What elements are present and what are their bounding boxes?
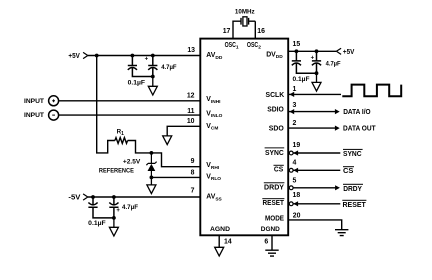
arrowhead to DATA I/O: [335, 109, 340, 114]
svg-text:REFERENCE: REFERENCE: [99, 167, 134, 174]
net label RESET (active low): [342, 200, 366, 209]
svg-text:0.1µF: 0.1µF: [88, 220, 106, 227]
zener diode D1 +2.5V reference: [146, 153, 156, 178]
capacitor C3 0.1uF (AVSS): [88, 197, 114, 218]
net label CS (active low): [343, 166, 354, 175]
wire pin10 VCM: [167, 126, 200, 136]
ground (AVDD decoupling): [148, 77, 157, 96]
svg-text:AGND: AGND: [210, 226, 230, 233]
svg-text:+5V: +5V: [68, 53, 80, 60]
svg-text:+2.5V: +2.5V: [123, 159, 141, 166]
junction on AVDD rail feeding R1: [95, 54, 99, 58]
capacitor C1 0.1uF (AVDD): [128, 56, 153, 77]
svg-text:DRDY: DRDY: [343, 186, 362, 193]
wire pin2 SDO: [288, 127, 335, 129]
svg-text:18: 18: [293, 192, 301, 199]
svg-text:4.7µF: 4.7µF: [122, 204, 138, 211]
supply +5V arrow (left): [83, 52, 88, 58]
svg-text:DGND: DGND: [261, 226, 280, 233]
input source INPUT+: [49, 96, 59, 106]
capacitor C4 4.7uF (AVSS): [109, 197, 118, 218]
pin label DRDY (active low): [264, 182, 285, 191]
crystal Y1 10MHz: [233, 17, 255, 39]
pin label CS (active low): [274, 165, 284, 174]
junction on AVSS rail at C4: [112, 195, 116, 199]
junction on DVDD rail at C6: [315, 49, 319, 53]
svg-text:RESET: RESET: [343, 202, 367, 209]
wire pin3 SDIO: [289, 111, 335, 113]
wire pin15 DVDD rail: [288, 50, 336, 52]
svg-text:4.7µF: 4.7µF: [161, 64, 177, 71]
supply -5V arrow: [83, 194, 88, 200]
svg-text:SDIO: SDIO: [267, 107, 284, 114]
svg-text:-5V: -5V: [68, 194, 80, 201]
bubble pin5 (active low): [289, 186, 293, 190]
junction on AVDD rail at C1: [131, 54, 135, 58]
wire pin1 SCLK: [289, 93, 341, 95]
svg-text:RESET: RESET: [263, 200, 285, 207]
svg-text:R1: R1: [117, 129, 125, 138]
svg-text:DATA OUT: DATA OUT: [343, 125, 376, 132]
wire pin8 VRLO: [151, 176, 200, 178]
clock waveform symbol: [342, 85, 401, 97]
earth ground (DGND): [265, 250, 278, 256]
svg-text:16: 16: [257, 28, 265, 35]
svg-text:6: 6: [264, 239, 268, 246]
svg-text:DRDY: DRDY: [264, 184, 284, 191]
svg-text:19: 19: [293, 142, 301, 149]
svg-text:7: 7: [191, 188, 195, 195]
junction on DVDD rail at C5: [295, 49, 299, 53]
capacitor C2 4.7uF (AVDD): [148, 56, 157, 77]
junction on AVSS rail at C3: [91, 195, 95, 199]
svg-text:2: 2: [293, 120, 297, 127]
resistor R1: [115, 138, 128, 144]
svg-text:5: 5: [293, 178, 297, 185]
arrowhead into pin1: [289, 92, 294, 97]
svg-text:10: 10: [187, 118, 195, 125]
svg-text:3: 3: [293, 102, 297, 109]
svg-text:+: +: [311, 55, 315, 61]
wire pin4 CS: [293, 169, 340, 171]
svg-text:INPUT: INPUT: [24, 112, 44, 119]
wire pin6 DGND: [271, 235, 273, 250]
wire from +5V rail down to R1: [97, 56, 115, 153]
arrowhead to DATA OUT: [335, 126, 340, 131]
svg-text:4.7µF: 4.7µF: [326, 61, 341, 68]
net label DRDY (active low): [343, 184, 363, 193]
arrowhead into pin18: [293, 201, 298, 206]
wire pin11 VINLO: [59, 114, 201, 116]
svg-text:11: 11: [187, 108, 194, 115]
junction below C2: [151, 75, 155, 79]
bubble pin4 (active low): [289, 168, 293, 172]
net label SYNC (active low): [343, 149, 363, 158]
svg-text:9: 9: [191, 158, 195, 165]
svg-text:SDO: SDO: [269, 126, 285, 133]
svg-text:14: 14: [224, 239, 232, 246]
pin label SYNC (active low): [265, 147, 285, 157]
junction below C4: [112, 216, 116, 220]
arrowhead into pin4: [293, 168, 298, 173]
capacitor C6 4.7uF (DVDD): [312, 51, 321, 73]
arrowhead into pin3: [289, 109, 294, 114]
bubble pin18 (active low): [289, 202, 293, 206]
svg-text:15: 15: [293, 41, 301, 48]
svg-text:20: 20: [293, 213, 301, 220]
wire pin19 SYNC: [293, 152, 340, 154]
svg-text:+5V: +5V: [343, 49, 355, 56]
svg-text:8: 8: [191, 170, 195, 177]
ground (reference): [147, 177, 156, 193]
svg-text:10MHz: 10MHz: [235, 9, 255, 16]
earth ground (MODE): [335, 230, 348, 236]
svg-text:17: 17: [223, 28, 231, 35]
wire pin20 MODE: [288, 220, 342, 230]
svg-text:SCLK: SCLK: [266, 92, 285, 99]
wire pin14 AGND: [218, 235, 220, 247]
svg-text:MODE: MODE: [265, 215, 284, 222]
wire pin12 VINHI: [59, 100, 201, 102]
bubble pin19 (active low): [289, 151, 293, 155]
svg-text:CS: CS: [343, 168, 354, 175]
arrowhead into pin19: [293, 150, 298, 155]
svg-text:12: 12: [187, 92, 195, 99]
arrowhead to DRDY: [335, 185, 340, 190]
wire R1 to reference node: [128, 141, 152, 153]
input source INPUT-: [49, 110, 59, 120]
ground (AGND): [215, 247, 224, 256]
junction below C6: [315, 71, 319, 75]
svg-text:DATA I/O: DATA I/O: [343, 109, 371, 116]
svg-text:SYNC: SYNC: [343, 151, 362, 158]
wire pin7 AVSS rail: [88, 196, 201, 198]
svg-text:0.1µF: 0.1µF: [128, 79, 146, 86]
node VRLO junction: [150, 176, 154, 180]
svg-text:CS: CS: [274, 167, 284, 174]
wire pin9 VRHI: [151, 153, 200, 167]
pin label RESET (active low): [262, 198, 284, 207]
ground (DVDD decoupling): [312, 73, 321, 91]
svg-text:13: 13: [187, 47, 195, 54]
supply +5V arrow (right): [336, 48, 341, 54]
ground (VCM): [163, 136, 172, 145]
svg-text:4: 4: [293, 159, 297, 166]
node VRHI junction: [150, 151, 154, 155]
wire pin13 AVDD rail: [88, 55, 201, 57]
svg-text:+: +: [116, 208, 120, 214]
wire pin18 RESET: [293, 203, 340, 205]
ground (AVSS decoupling): [109, 218, 118, 236]
IC U1 body: [200, 39, 288, 236]
svg-text:+: +: [145, 57, 149, 63]
svg-text:1: 1: [293, 86, 297, 93]
svg-text:0.1µF: 0.1µF: [293, 76, 310, 83]
wire pin5 DRDY: [293, 187, 335, 189]
svg-text:INPUT: INPUT: [24, 98, 44, 105]
junction on AVDD rail at C2: [151, 54, 155, 58]
capacitor C5 0.1uF (DVDD): [292, 51, 317, 73]
svg-text:SYNC: SYNC: [265, 150, 284, 157]
